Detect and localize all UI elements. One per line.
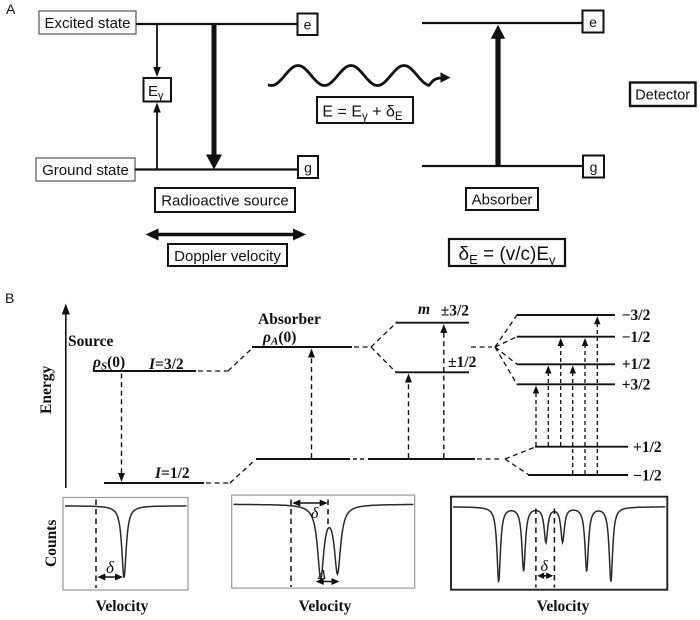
svg-text:±1/2: ±1/2	[448, 354, 477, 371]
svg-text:Radioactive source: Radioactive source	[161, 193, 289, 210]
level line source ground I=1/2	[104, 482, 204, 484]
label rho_S(0)	[92, 354, 125, 373]
label rho_A(0)	[262, 329, 296, 348]
svg-text:Velocity: Velocity	[299, 598, 352, 615]
spectrum 3 isomer shift arrow	[537, 573, 553, 580]
level line source excited I=3/2	[93, 370, 196, 372]
svg-text:Absorber: Absorber	[472, 192, 533, 209]
svg-text:I=1/2: I=1/2	[154, 465, 190, 482]
label -1/2 ground	[633, 468, 662, 485]
level line +1/2 (ground)	[535, 446, 628, 448]
box e (source)	[298, 14, 318, 36]
svg-text:Excited state: Excited state	[45, 15, 131, 32]
svg-text:ρS(0): ρS(0)	[92, 354, 125, 373]
svg-text:e: e	[304, 17, 312, 33]
label +-3/2	[441, 303, 470, 320]
label Source	[68, 333, 113, 350]
level line -1/2 (ground)	[528, 474, 628, 476]
absorber absorption dashed arrow	[308, 349, 315, 459]
wire ground-state level (source)	[135, 168, 298, 170]
box Absorber	[466, 188, 538, 210]
magnetic transition arrow 2	[545, 366, 552, 447]
box e (absorber)	[583, 11, 604, 33]
dashed link source-absorber excited	[198, 348, 253, 372]
svg-text:Absorber: Absorber	[258, 311, 321, 328]
doppler velocity double arrow	[146, 229, 307, 241]
svg-text:Source: Source	[68, 333, 113, 350]
box Detector	[630, 83, 696, 107]
svg-text:−1/2: −1/2	[622, 329, 651, 346]
level line +-3/2 (quadrupole)	[396, 322, 469, 324]
svg-text:−1/2: −1/2	[633, 468, 662, 485]
svg-text:g: g	[590, 159, 598, 175]
label Velocity 2	[299, 598, 352, 615]
spectrum 1 zero-velocity dashed line	[95, 500, 97, 589]
level line +-1/2 (quadrupole)	[396, 371, 469, 373]
svg-text:m: m	[418, 301, 430, 318]
level line absorber excited	[252, 346, 352, 348]
svg-text:Ground state: Ground state	[42, 162, 129, 179]
label -1/2	[622, 329, 651, 346]
svg-text:Doppler velocity: Doppler velocity	[174, 248, 281, 265]
quadrupole split dashes	[371, 323, 396, 372]
svg-text:+1/2: +1/2	[633, 439, 662, 456]
label m	[418, 301, 430, 318]
arrow down to E_gamma box	[153, 25, 161, 77]
arrow up to E_gamma box	[153, 103, 161, 170]
svg-text:B: B	[5, 290, 14, 306]
svg-text:Counts: Counts	[43, 520, 60, 567]
spectrum box 3	[451, 497, 667, 590]
axis label Counts	[43, 520, 60, 567]
label I=3/2 (source excited)	[148, 356, 184, 373]
magnetic transition arrow 4	[570, 366, 577, 475]
magnetic transition arrow 5	[582, 338, 588, 474]
box g (source)	[298, 156, 318, 178]
spectrum 2 zero-velocity dashed line	[290, 500, 292, 588]
label Absorber (B)	[258, 311, 321, 328]
panel label A	[6, 1, 16, 17]
spectrum 2 quadrupole splitting arrow	[316, 578, 340, 585]
label +-1/2	[448, 354, 477, 371]
svg-text:+1/2: +1/2	[622, 356, 651, 373]
magnetic excited split dashes	[495, 315, 517, 384]
dashed link absorber to quadrupole split	[354, 346, 369, 348]
spectrum 3 centroid dashed line	[553, 509, 555, 588]
spectrum box 1	[63, 498, 188, 591]
label +1/2 excited	[622, 356, 651, 373]
box Excited state	[39, 11, 136, 34]
svg-text:δ: δ	[541, 558, 549, 575]
svg-text:Detector: Detector	[635, 88, 690, 104]
quadrupole transition arrow 1	[405, 374, 412, 459]
svg-text:−3/2: −3/2	[622, 307, 651, 324]
svg-text:ρA(0): ρA(0)	[262, 329, 296, 348]
svg-text:δ: δ	[311, 505, 319, 522]
box Doppler velocity	[168, 244, 287, 266]
spectrum 1 isomer shift arrow	[97, 574, 123, 581]
label +3/2	[622, 377, 651, 394]
svg-text:±3/2: ±3/2	[441, 303, 470, 320]
thick absorption arrow (absorber)	[491, 25, 505, 166]
label delta (spectrum 1)	[106, 558, 115, 577]
label Velocity 1	[96, 598, 149, 615]
axis label Energy	[38, 366, 55, 414]
box E_gamma	[144, 78, 172, 102]
svg-text:g: g	[304, 160, 312, 176]
spectrum box 2	[232, 495, 415, 588]
svg-text:Velocity: Velocity	[537, 598, 590, 615]
magnetic transition arrow 6	[594, 316, 601, 474]
source emission dashed arrow	[118, 374, 125, 483]
label delta (spectrum 2)	[311, 505, 319, 522]
box Ground state	[36, 158, 135, 181]
magnetic transition arrow 3	[558, 338, 565, 446]
level line -3/2	[517, 314, 615, 316]
box Radioactive source	[155, 188, 295, 212]
spectrum 2 centroid dashed line	[327, 500, 329, 528]
level line +3/2	[517, 383, 615, 385]
spectrum 2 curve	[234, 504, 414, 578]
gamma photon wavy arrow	[268, 66, 451, 86]
svg-text:e: e	[589, 14, 597, 30]
quadrupole transition arrow 2	[440, 324, 447, 458]
level line +1/2 (excited)	[517, 363, 615, 365]
svg-text:Energy: Energy	[38, 366, 55, 414]
svg-text:A: A	[6, 1, 16, 17]
svg-text:+3/2: +3/2	[622, 377, 651, 394]
label +1/2 ground	[633, 439, 662, 456]
box E = E_gamma + delta_E	[317, 97, 413, 123]
label Velocity 3	[537, 598, 590, 615]
spectrum 1 curve	[65, 506, 187, 578]
dashed link source-absorber ground	[206, 460, 255, 483]
box g (absorber)	[583, 156, 604, 178]
svg-text:δ: δ	[106, 558, 115, 577]
dashed link quadrupole to magnetic split	[471, 346, 492, 348]
spectrum 2 isomer shift arrow	[292, 500, 327, 507]
wire excited-state level (absorber)	[422, 22, 582, 24]
label delta (spectrum 3)	[541, 558, 549, 575]
label Delta (spectrum 2)	[317, 567, 326, 582]
label -3/2	[622, 307, 651, 324]
svg-text:Velocity: Velocity	[96, 598, 149, 615]
energy axis	[62, 304, 70, 489]
wire ground-state level (absorber)	[422, 165, 582, 167]
panel label B	[5, 290, 14, 306]
magnetic transition arrow 1	[533, 386, 539, 447]
level line absorber ground	[256, 458, 502, 460]
spectrum 3 curve	[453, 507, 666, 582]
spectrum 3 zero-velocity dashed line	[535, 509, 537, 588]
thick emission arrow (source)	[206, 24, 222, 170]
box delta_E formula	[449, 239, 565, 268]
level line -1/2	[517, 336, 615, 338]
label I=1/2 (source ground)	[154, 465, 190, 482]
magnetic ground split dashes	[505, 447, 536, 475]
wire excited-state level (source)	[136, 23, 298, 25]
